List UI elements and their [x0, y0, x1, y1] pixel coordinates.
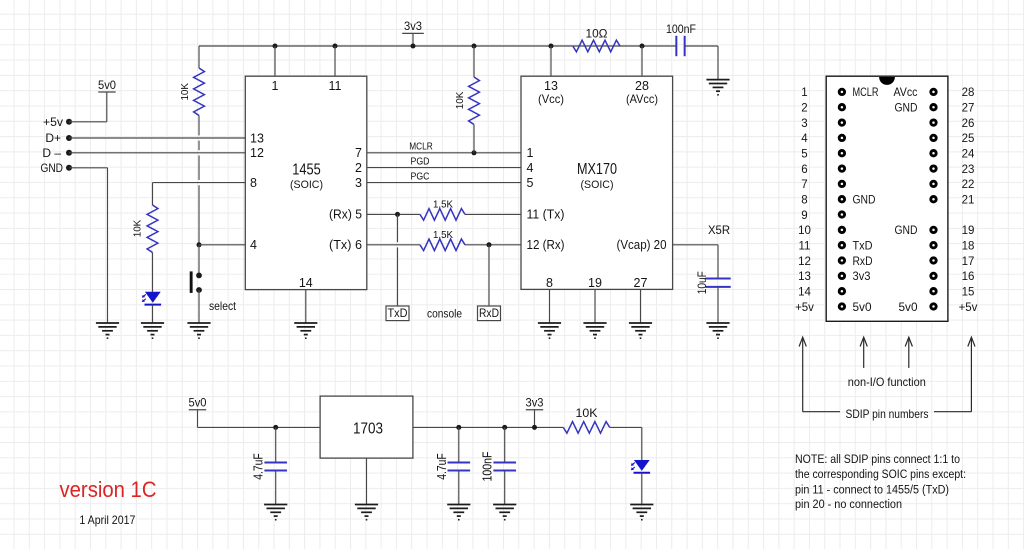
- svg-text:(Vcap) 20: (Vcap) 20: [617, 238, 667, 252]
- svg-text:25: 25: [962, 133, 975, 145]
- svg-text:3: 3: [355, 176, 362, 190]
- svg-text:2: 2: [801, 103, 807, 115]
- svg-text:1: 1: [801, 87, 807, 99]
- wire PGC net: [367, 172, 521, 183]
- wire 3v3 tap: [412, 33, 414, 46]
- junction rail-3v3: [411, 44, 416, 49]
- arrow left function column: [860, 337, 867, 368]
- SDIP pin row 5 left: [801, 149, 844, 161]
- svg-text:3v3: 3v3: [404, 19, 422, 33]
- svg-text:NOTE: all SDIP pins connect 1:: NOTE: all SDIP pins connect 1:1 to: [795, 452, 960, 466]
- node +5v terminal: [43, 115, 72, 129]
- svg-text:3v3: 3v3: [526, 396, 544, 410]
- svg-text:10uF: 10uF: [695, 271, 709, 294]
- svg-text:+5v: +5v: [43, 115, 63, 129]
- resistor 10R (AVcc filter): [573, 29, 620, 52]
- capacitor C3 4.7uF: [264, 462, 287, 470]
- SDIP pin row 12 right: [931, 256, 975, 268]
- svg-text:GND: GND: [41, 161, 64, 175]
- wire D+ to U1 pin13: [69, 137, 245, 139]
- svg-text:2: 2: [355, 161, 362, 175]
- wire TxD drop (gap at crossing): [397, 214, 399, 306]
- U1 pin 14 stub: [299, 276, 313, 323]
- svg-text:10K: 10K: [455, 91, 466, 109]
- node TxD box: [386, 306, 409, 321]
- svg-text:24: 24: [962, 149, 975, 161]
- svg-text:MX170: MX170: [577, 161, 617, 178]
- svg-text:RxD: RxD: [479, 308, 499, 320]
- microcontroller U2 MX170 SOIC body: [521, 76, 673, 289]
- svg-text:17: 17: [962, 256, 975, 268]
- ground G8 (100nF): [706, 80, 729, 95]
- ground G12 (C4): [447, 505, 470, 520]
- svg-text:7: 7: [355, 146, 362, 160]
- SDIP pin row +5v left: [795, 302, 871, 314]
- svg-text:13: 13: [250, 131, 264, 145]
- switch select: [190, 245, 237, 323]
- resistor 10K MCLR pullup: [455, 46, 479, 153]
- junction pin4-select: [197, 242, 202, 247]
- capacitor C5 100nF: [493, 462, 516, 470]
- node D- terminal: [42, 146, 72, 160]
- svg-text:19: 19: [962, 225, 975, 237]
- wire 5v0 to regulator: [198, 410, 321, 428]
- svg-text:4: 4: [250, 238, 257, 252]
- ground G10 (C3): [264, 505, 287, 520]
- svg-text:4.7uF: 4.7uF: [435, 453, 449, 480]
- svg-text:+5v: +5v: [795, 302, 814, 314]
- U2 pin 13 Vcc stub: [538, 46, 564, 106]
- SDIP pin row 6 right: [931, 164, 975, 176]
- wire C3 drop: [275, 427, 277, 462]
- svg-text:10K: 10K: [133, 219, 144, 237]
- svg-text:TxD: TxD: [388, 308, 408, 320]
- op-amp U1 1455 SOIC body: [245, 76, 366, 289]
- svg-text:non-I/O function: non-I/O function: [848, 375, 926, 389]
- wire to LED2: [610, 427, 642, 460]
- resistor 1,5K (Tx line): [367, 229, 521, 251]
- ground G1 (GND terminal): [96, 323, 119, 338]
- U1 pin 1 stub: [272, 46, 279, 93]
- SDIP pin row +5v right: [899, 302, 978, 314]
- svg-text:6: 6: [801, 164, 807, 176]
- arrow right function column: [905, 337, 912, 368]
- wire C4 drop: [458, 427, 460, 462]
- junction C5: [502, 425, 507, 430]
- svg-text:11: 11: [329, 79, 342, 93]
- svg-text:12: 12: [798, 256, 811, 268]
- svg-text:3: 3: [801, 118, 807, 130]
- junction rail-R2: [472, 44, 477, 49]
- svg-text:(Vcc): (Vcc): [538, 92, 564, 106]
- svg-text:1 April 2017: 1 April 2017: [79, 513, 135, 527]
- svg-text:version 1C: version 1C: [60, 477, 157, 502]
- svg-text:12: 12: [250, 146, 264, 160]
- svg-text:5v0: 5v0: [189, 396, 207, 410]
- ground G4 (U1 pin14): [294, 323, 317, 338]
- SDIP pin row 2 left: [801, 103, 844, 115]
- svg-text:21: 21: [962, 195, 975, 207]
- junction rail-pin1: [273, 44, 278, 49]
- svg-text:+5v: +5v: [959, 302, 978, 314]
- svg-text:8: 8: [250, 176, 257, 190]
- svg-text:10Ω: 10Ω: [586, 29, 608, 41]
- svg-text:(SOIC): (SOIC): [581, 179, 614, 191]
- junction rail-pin28: [640, 44, 645, 49]
- svg-text:5: 5: [527, 176, 534, 190]
- wire pin8 branch: [153, 183, 246, 205]
- svg-text:16: 16: [962, 271, 975, 283]
- SDIP pin row 8 left: [801, 195, 875, 207]
- U2 pin 27 stub: [634, 276, 648, 323]
- svg-text:pin 20 - no connection: pin 20 - no connection: [795, 497, 902, 511]
- svg-text:11: 11: [799, 241, 811, 253]
- regulator U3 1703: [320, 396, 413, 458]
- wire C3 to ground: [275, 471, 277, 505]
- svg-text:15: 15: [962, 286, 975, 298]
- wire Vcap to cap: [673, 245, 718, 279]
- SDIP pin row 9 left: [801, 210, 844, 222]
- resistor 10K (LED): [563, 408, 609, 433]
- svg-text:GND: GND: [895, 225, 918, 237]
- ground G11 (U3): [355, 505, 378, 520]
- SDIP pin row 13 left: [798, 271, 870, 283]
- connector J1 SDIP-28 body: [826, 76, 948, 321]
- SDIP pin row 14 right: [931, 286, 975, 298]
- LED D1: [142, 292, 161, 305]
- svg-text:4.7uF: 4.7uF: [252, 453, 266, 480]
- wire 3v3 tap bottom: [534, 410, 536, 428]
- capacitor 10uF X5R: [705, 279, 730, 287]
- svg-text:13: 13: [544, 79, 558, 93]
- resistor 1,5K (Rx line): [367, 198, 521, 220]
- svg-text:the corresponding SOIC pins ex: the corresponding SOIC pins except:: [795, 467, 966, 481]
- svg-text:10: 10: [798, 225, 811, 237]
- wire LED2 to ground: [641, 473, 643, 505]
- svg-text:12 (Rx): 12 (Rx): [527, 238, 565, 252]
- svg-text:23: 23: [962, 164, 975, 176]
- junction 3v3 bottom: [532, 425, 537, 430]
- wire U3 ground stub: [366, 458, 368, 504]
- arrow right pin-number column: [968, 337, 975, 412]
- SDIP pin row 11 left: [799, 241, 873, 253]
- junction C3: [273, 425, 278, 430]
- svg-text:28: 28: [962, 87, 975, 99]
- svg-text:X5R: X5R: [708, 223, 730, 237]
- svg-text:1455: 1455: [292, 162, 321, 179]
- SDIP pin row 10 left: [798, 225, 844, 237]
- ground G13 (C5): [493, 505, 516, 520]
- svg-text:8: 8: [546, 276, 553, 290]
- U2 pin 8 stub: [546, 276, 553, 323]
- svg-text:(Rx) 5: (Rx) 5: [329, 208, 362, 222]
- SDIP pin row 3 left: [801, 118, 844, 130]
- SDIP pin row 1 left: [801, 87, 878, 99]
- svg-text:1: 1: [272, 79, 279, 93]
- svg-text:11 (Tx): 11 (Tx): [527, 208, 565, 222]
- svg-text:MCLR: MCLR: [409, 142, 433, 153]
- svg-text:pin 11 - connect to 1455/5 (Tx: pin 11 - connect to 1455/5 (TxD): [795, 482, 949, 496]
- capacitor: [676, 36, 684, 56]
- svg-text:27: 27: [962, 103, 975, 115]
- wire 3v3 rail: [199, 46, 718, 80]
- svg-text:SDIP pin numbers: SDIP pin numbers: [846, 407, 929, 421]
- junction C4: [456, 425, 461, 430]
- svg-text:10K: 10K: [180, 83, 191, 101]
- SDIP pin row 6 left: [801, 164, 844, 176]
- svg-text:3v3: 3v3: [853, 271, 871, 283]
- wire 3v3 output: [413, 426, 563, 428]
- SDIP pin row 7 left: [801, 179, 844, 191]
- svg-text:5: 5: [801, 149, 807, 161]
- U1 pin 11 stub: [329, 46, 342, 93]
- svg-text:7: 7: [801, 179, 807, 191]
- svg-text:RxD: RxD: [853, 256, 873, 268]
- svg-text:select: select: [209, 299, 237, 313]
- svg-text:14: 14: [299, 276, 313, 290]
- SDIP pin row 3 right: [931, 118, 975, 130]
- svg-text:18: 18: [962, 241, 975, 253]
- wire C4 to ground: [458, 471, 460, 505]
- wire RxD drop: [488, 245, 490, 306]
- svg-text:13: 13: [798, 271, 811, 283]
- ground G9 (10uF): [706, 323, 729, 338]
- wire PGD net: [367, 157, 521, 168]
- svg-text:26: 26: [962, 118, 975, 130]
- wire MCLR net: [367, 142, 521, 153]
- svg-text:4: 4: [527, 161, 534, 175]
- SDIP pin row 8 right: [931, 195, 975, 207]
- SDIP pin row 7 right: [931, 179, 975, 191]
- node D+ terminal: [45, 131, 72, 145]
- SDIP notch: [879, 77, 895, 85]
- SDIP pin row 4 right: [931, 133, 975, 145]
- SDIP pin row 11 right: [931, 241, 975, 253]
- svg-text:1703: 1703: [353, 421, 383, 438]
- SDIP pin row 9 right: [0, 0, 1, 1]
- resistor 10K pullup (left): [180, 46, 204, 116]
- note text: [795, 452, 966, 511]
- power net 3v3 (bottom): [526, 396, 544, 410]
- svg-text:MCLR: MCLR: [853, 87, 879, 99]
- capacitor C4 4.7uF: [448, 462, 471, 470]
- svg-text:TxD: TxD: [853, 241, 873, 253]
- SDIP pin row 5 right: [931, 149, 975, 161]
- wire D- to U1 pin12: [69, 152, 245, 154]
- svg-text:GND: GND: [895, 103, 918, 115]
- svg-text:10K: 10K: [576, 408, 598, 420]
- junction RxD tap: [487, 242, 492, 247]
- junction rail-pin13: [549, 44, 554, 49]
- svg-text:28: 28: [635, 79, 649, 93]
- svg-text:100nF: 100nF: [666, 24, 696, 36]
- svg-text:PGD: PGD: [411, 157, 430, 168]
- U2 pin 28 AVcc stub: [626, 46, 658, 106]
- svg-text:8: 8: [801, 195, 807, 207]
- SDIP pin row 1 right: [894, 87, 975, 99]
- wire 10K to pin4 junction (with crossing gaps): [198, 116, 200, 245]
- ground G3 (select): [187, 323, 210, 338]
- capacitor 100nF (AVcc): [666, 24, 696, 36]
- SDIP pin row 4 left: [801, 133, 844, 145]
- LED D2: [631, 460, 650, 473]
- SDIP pin row 10 right: [895, 225, 975, 237]
- ground G5 (U2 pin8): [538, 323, 561, 338]
- svg-text:console: console: [427, 307, 462, 321]
- svg-text:19: 19: [588, 276, 602, 290]
- svg-text:D –: D –: [42, 146, 61, 160]
- node GND terminal: [41, 161, 73, 175]
- wire cap to ground: [717, 287, 719, 323]
- wire C5 to ground: [504, 471, 506, 505]
- resistor 10K (pin 8 pulldown): [133, 205, 158, 253]
- svg-text:22: 22: [962, 179, 975, 191]
- U2 pin 19 stub: [588, 276, 602, 323]
- svg-text:(SOIC): (SOIC): [290, 179, 323, 191]
- svg-text:(AVcc): (AVcc): [626, 92, 658, 106]
- power net 3v3 (top): [402, 19, 424, 33]
- wire pin4: [199, 244, 245, 246]
- label SDIP pin numbers: [803, 407, 972, 421]
- junction TxD tap: [395, 212, 400, 217]
- ground G6 (U2 pin19): [583, 323, 606, 338]
- power net 5v0 (bottom): [189, 396, 207, 410]
- wire C5 drop: [504, 427, 506, 462]
- svg-text:14: 14: [798, 286, 811, 298]
- wire LED to ground: [152, 305, 154, 323]
- ground G14 (LED2): [630, 505, 653, 520]
- svg-text:1,5K: 1,5K: [433, 229, 453, 241]
- svg-text:27: 27: [634, 276, 648, 290]
- wire +5v to 5v0: [69, 92, 107, 122]
- SDIP pin row 2 right: [895, 103, 975, 115]
- power net 5v0 (top left): [98, 78, 116, 92]
- svg-text:1,5K: 1,5K: [433, 198, 453, 210]
- SDIP pin row 12 left: [798, 256, 872, 268]
- svg-text:GND: GND: [853, 195, 876, 207]
- wire 10K to LED: [152, 253, 154, 292]
- SDIP pin row 14 left: [798, 286, 844, 298]
- SDIP pin row 13 right: [931, 271, 975, 283]
- svg-text:1: 1: [527, 146, 534, 160]
- svg-text:5v0: 5v0: [98, 78, 116, 92]
- ground G2 (LED1): [141, 323, 164, 338]
- svg-text:PGC: PGC: [411, 172, 430, 183]
- arrow left pin-number column: [799, 337, 806, 412]
- svg-text:5v0: 5v0: [899, 302, 918, 314]
- wire GND to ground: [69, 168, 108, 323]
- junction rail-pin11: [333, 44, 338, 49]
- node RxD box: [478, 306, 501, 321]
- svg-text:5v0: 5v0: [853, 302, 872, 314]
- ground G7 (U2 pin27): [629, 323, 652, 338]
- svg-text:4: 4: [801, 133, 808, 145]
- svg-text:AVcc: AVcc: [894, 87, 918, 99]
- svg-text:D+: D+: [45, 131, 61, 145]
- svg-text:(Tx) 6: (Tx) 6: [329, 238, 362, 252]
- junction MCLR-R2: [472, 150, 477, 155]
- svg-text:100nF: 100nF: [481, 451, 495, 481]
- svg-text:9: 9: [801, 210, 807, 222]
